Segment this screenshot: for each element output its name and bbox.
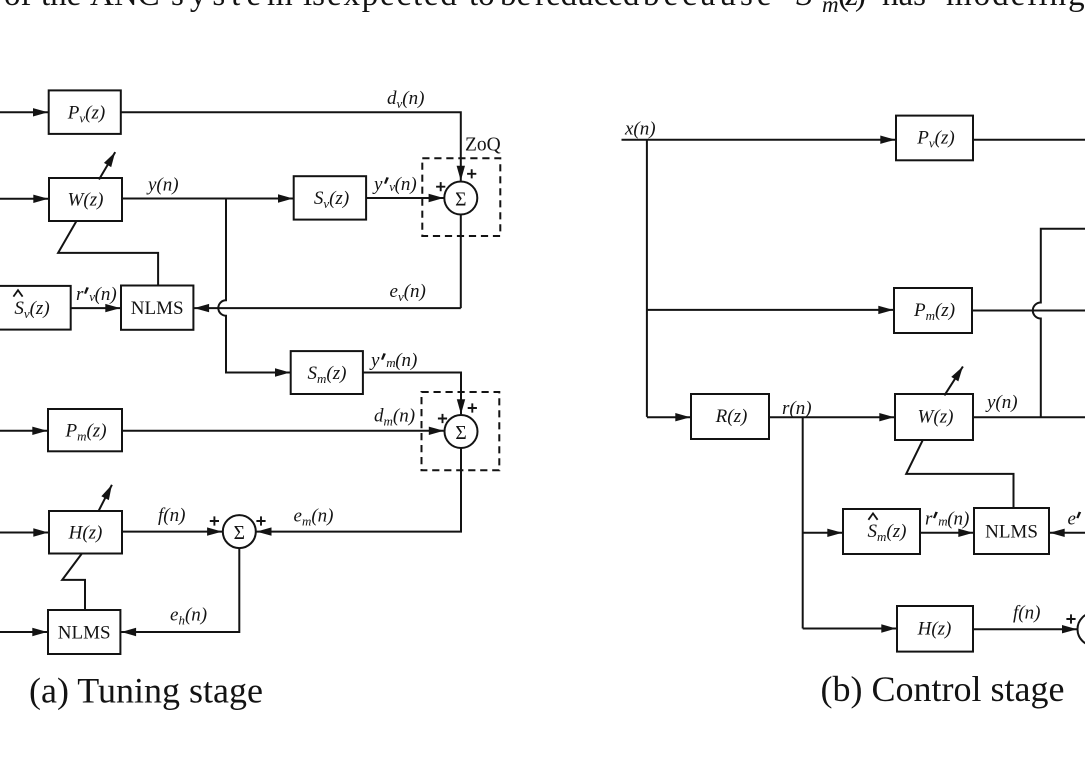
adaptive arrow W(z) control xyxy=(944,367,963,396)
svg-text:f(n): f(n) xyxy=(158,505,185,526)
wire y(n) branch down to Sm(z) xyxy=(218,199,290,373)
svg-text:(z): (z) xyxy=(838,0,865,13)
wire branch to H(z) control xyxy=(803,628,897,630)
svg-text:Pm(z): Pm(z) xyxy=(64,421,106,444)
block NLMS tuning-W xyxy=(121,286,193,330)
wire upper return with hop xyxy=(1033,229,1085,417)
top text strip (cropped sentence) xyxy=(4,0,1085,17)
svg-text:Pv(z): Pv(z) xyxy=(916,128,954,151)
wire y(n) control output xyxy=(973,416,1085,418)
svg-text:because: because xyxy=(643,0,775,13)
svg-text:y: y xyxy=(369,350,380,371)
svg-text:to: to xyxy=(469,0,495,13)
wire Pm(z) to S2 (dm) xyxy=(122,430,444,432)
wire input to Pv(z) tuning xyxy=(0,111,48,113)
wire Shat-m to NLMS control (r'm) xyxy=(920,532,973,534)
svg-text:Sv(z): Sv(z) xyxy=(14,298,49,321)
adaptive arrow H(z) tuning xyxy=(98,485,112,512)
wire W(z) output y(n) to Sv(z) xyxy=(122,198,293,200)
wire input to W(z) tuning xyxy=(0,198,48,200)
wire input to NLMS tuning-H xyxy=(0,631,47,633)
plus S1 left xyxy=(436,182,445,191)
svg-text:x(n): x(n) xyxy=(624,119,656,140)
summing junction S3 xyxy=(223,515,256,548)
wire input to H(z) tuning xyxy=(0,532,48,534)
wire S2 output down (em) xyxy=(257,448,462,532)
block NLMS control xyxy=(974,508,1049,554)
svg-text:m: m xyxy=(386,355,395,370)
svg-text:ZoQ: ZoQ xyxy=(465,135,501,156)
svg-text:dv(n): dv(n) xyxy=(387,88,424,111)
svg-text:y(n): y(n) xyxy=(985,392,1018,413)
svg-text:H(z): H(z) xyxy=(917,619,952,640)
svg-text:be: be xyxy=(500,0,531,13)
svg-text:reduced: reduced xyxy=(535,0,640,13)
svg-text:H(z): H(z) xyxy=(68,523,103,544)
wire S1 output down (ev) xyxy=(460,215,462,309)
block Pv(z) tuning xyxy=(49,90,121,133)
svg-text:em(n): em(n) xyxy=(294,506,334,529)
svg-text:W(z): W(z) xyxy=(918,407,954,428)
block W(z) tuning xyxy=(49,178,122,221)
svg-text:W(z): W(z) xyxy=(68,190,104,211)
svg-text:(b) Control stage: (b) Control stage xyxy=(821,669,1065,709)
svg-text:Sv(z): Sv(z) xyxy=(314,188,349,211)
wire Pv(z) to S1 (dv) xyxy=(121,112,461,181)
svg-text:dm(n): dm(n) xyxy=(374,406,415,429)
wire Sm(z) to S2 (y'm) xyxy=(363,373,461,415)
svg-text:y: y xyxy=(372,174,383,195)
svg-text:modeling: modeling xyxy=(946,0,1085,13)
zigzag W(z) to NLMS xyxy=(58,221,158,285)
svg-text:is: is xyxy=(303,0,325,13)
svg-text:e: e xyxy=(1068,509,1076,530)
wire Pv(z) control output xyxy=(973,139,1085,141)
wire x(n) to Pv(z) control xyxy=(622,139,896,141)
zigzag W(z) control to NLMS xyxy=(906,440,1013,508)
svg-text:r: r xyxy=(76,284,84,305)
block NLMS tuning-H xyxy=(48,610,120,654)
wire Shat-v to NLMS (r'v) xyxy=(71,307,121,309)
plus S3 left xyxy=(210,516,219,525)
svg-text:Pm(z): Pm(z) xyxy=(913,300,955,323)
svg-text:expected: expected xyxy=(327,0,459,13)
wire x(n) branch down xyxy=(646,140,648,417)
svg-text:(n): (n) xyxy=(95,284,117,305)
block Pm(z) tuning xyxy=(48,409,122,451)
plus S2 left xyxy=(438,414,447,423)
block Shat-v(z) xyxy=(0,286,71,330)
wire H(z) control to S4 (f) xyxy=(973,628,1077,630)
adaptive arrow W(z) tuning xyxy=(99,152,115,179)
svg-text:f(n): f(n) xyxy=(1013,603,1040,624)
plus S4 left xyxy=(1066,614,1075,623)
dashed ZoQ box 1 xyxy=(422,158,500,236)
plus S1 right xyxy=(467,169,476,178)
plus S2 right xyxy=(468,403,477,412)
svg-text:ev(n): ev(n) xyxy=(390,281,426,304)
wire input to Pm(z) tuning xyxy=(0,430,47,432)
block R(z) xyxy=(691,394,769,439)
svg-text:Σ: Σ xyxy=(455,423,466,444)
svg-text:eh(n): eh(n) xyxy=(170,605,207,628)
svg-text:of: of xyxy=(4,0,32,13)
svg-text:Sm(z): Sm(z) xyxy=(308,363,347,386)
block W(z) control xyxy=(895,394,973,440)
dashed ZoQ box 2 xyxy=(422,392,500,470)
summing junction S2 xyxy=(445,415,478,448)
svg-text:(n): (n) xyxy=(947,509,969,530)
wire branch to R(z) xyxy=(647,416,690,418)
block Pm(z) control xyxy=(894,288,972,333)
summing junction S4 (partial) xyxy=(1078,613,1085,646)
svg-text:NLMS: NLMS xyxy=(131,298,184,319)
svg-text:Σ: Σ xyxy=(455,190,466,211)
block Pv(z) control xyxy=(896,116,973,161)
block Shat-m(z) xyxy=(843,509,920,554)
svg-text:r(n): r(n) xyxy=(782,398,812,419)
wire branch to Pm(z) control xyxy=(647,309,893,311)
block Sm(z) xyxy=(291,351,363,394)
svg-text:y(n): y(n) xyxy=(146,175,179,196)
block H(z) tuning xyxy=(49,511,122,554)
svg-text:m: m xyxy=(938,514,947,529)
wire H(z) to S3 (f) xyxy=(122,531,222,533)
svg-text:(a) Tuning stage: (a) Tuning stage xyxy=(29,671,263,711)
wire branch to Shat-m(z) xyxy=(803,532,843,534)
wire Pm(z) control output xyxy=(972,310,1085,312)
wire e'm into NLMS control xyxy=(1050,532,1085,534)
wire Sv(z) to S1 xyxy=(366,197,444,199)
summing junction S1 xyxy=(444,182,477,215)
svg-text:r: r xyxy=(925,509,933,530)
zigzag H(z) to NLMS xyxy=(62,554,85,611)
svg-text:m: m xyxy=(822,0,839,17)
svg-text:(n): (n) xyxy=(395,350,417,371)
svg-text:Pv(z): Pv(z) xyxy=(67,102,105,125)
block H(z) control xyxy=(897,606,973,652)
svg-text:(n): (n) xyxy=(395,174,417,195)
svg-text:has: has xyxy=(882,0,926,13)
svg-text:system: system xyxy=(171,0,299,13)
plus S3 right xyxy=(256,516,265,525)
wire r(n) branch down xyxy=(802,417,804,628)
svg-text:ANC: ANC xyxy=(90,0,160,13)
svg-text:NLMS: NLMS xyxy=(58,623,111,644)
block Sv(z) xyxy=(294,176,366,219)
wire R(z) to W(z) control (r) xyxy=(769,416,894,418)
svg-text:S: S xyxy=(796,0,813,13)
svg-text:the: the xyxy=(41,0,81,13)
svg-text:Σ: Σ xyxy=(234,523,245,544)
svg-text:Sm(z): Sm(z) xyxy=(868,521,907,544)
svg-text:R(z): R(z) xyxy=(715,406,748,427)
svg-text:NLMS: NLMS xyxy=(985,522,1038,543)
wire ev to NLMS xyxy=(194,307,461,309)
wire S3 output down (eh) xyxy=(121,548,239,632)
